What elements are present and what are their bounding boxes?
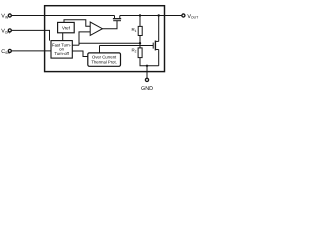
wire Q2 gate line <box>100 45 154 47</box>
transistor Q2 drain stub <box>155 40 158 42</box>
wire VIN lead <box>11 15 114 17</box>
transistor Q2 discharge FET drain wire <box>158 16 160 42</box>
wire Vref to fast box <box>62 33 64 41</box>
wire R2 bottom rail <box>140 58 159 66</box>
transistor Q2 source stub <box>155 49 158 51</box>
wire fast box to amp input <box>72 44 79 46</box>
resistor R2 <box>138 48 142 58</box>
wire amp - input / feedback <box>79 32 90 45</box>
block over current thermal prot <box>88 53 121 66</box>
op-amp U1 driver triangle <box>90 22 102 35</box>
terminal CSS <box>8 49 11 52</box>
svg-text:R2: R2 <box>132 47 137 53</box>
block Vref <box>58 22 75 32</box>
terminal VIN <box>8 14 11 17</box>
terminal VON <box>8 29 11 32</box>
wire fast box to protection box <box>72 51 88 57</box>
wire divider top <box>139 16 141 27</box>
wire R1 to R2 <box>139 36 141 48</box>
transistor Q2 channel bar <box>154 41 156 51</box>
svg-text:R1: R1 <box>132 27 137 33</box>
wire VON lead <box>11 30 49 40</box>
wire GND lead <box>146 66 148 78</box>
transistor Q1 gate bar <box>113 20 121 22</box>
svg-text:GND: GND <box>141 86 153 92</box>
svg-text:Turn-off: Turn-off <box>54 51 69 56</box>
svg-text:Thermal Prot.: Thermal Prot. <box>91 59 116 64</box>
wire CSS lead <box>11 50 51 52</box>
junction VOUT-R1 <box>139 14 141 16</box>
svg-text:VOUT: VOUT <box>187 14 198 20</box>
transistor Q1 pass FET drain stub <box>114 16 116 19</box>
transistor Q1 channel bar <box>113 18 121 20</box>
terminal VOUT <box>182 14 185 17</box>
resistor R1 <box>138 26 142 35</box>
transistor Q2 source wire <box>158 50 160 66</box>
wire Q1 gate to amp output <box>102 21 117 29</box>
wire VOUT rail <box>120 15 182 17</box>
transistor Q1 pass FET source stub <box>119 16 121 19</box>
junction feedback node <box>139 42 141 44</box>
block fast turn-on/off <box>51 41 72 59</box>
svg-text:Vref: Vref <box>62 26 71 31</box>
terminal GND <box>145 78 148 81</box>
junction GND tap <box>146 65 148 67</box>
junction VOUT-Q2 <box>158 14 160 16</box>
svg-text:VIN: VIN <box>1 14 9 20</box>
wire feedback line to divider <box>79 42 140 44</box>
transistor Q2 gate bar <box>152 43 154 49</box>
wire protection box to gate line <box>99 46 101 54</box>
IC outline box <box>45 6 165 72</box>
wire Vref to amp + input <box>64 20 90 27</box>
